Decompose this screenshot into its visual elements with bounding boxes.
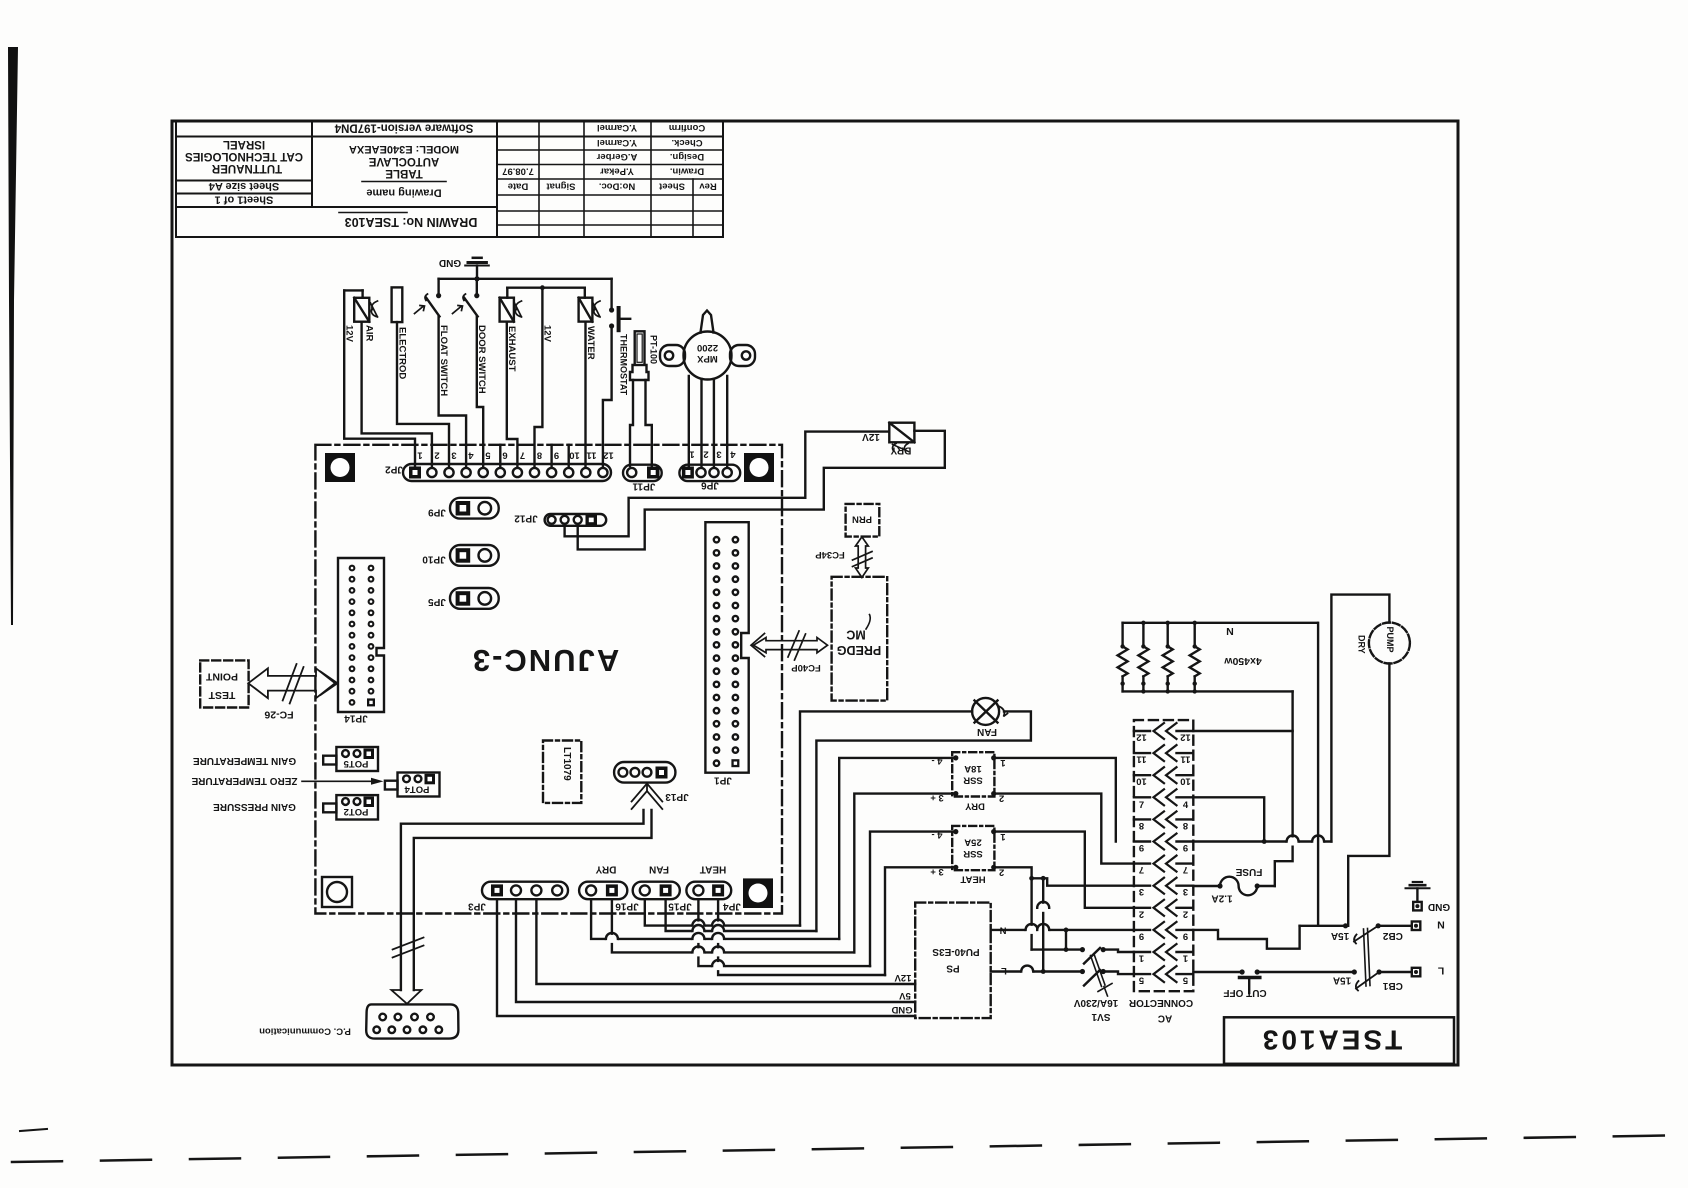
wire SSR18 pin3 left: [854, 794, 956, 953]
switch SV1: [1032, 948, 1083, 950]
svg-text:THERMOSTAT: THERMOSTAT: [619, 334, 629, 396]
svg-text:11: 11: [586, 450, 597, 461]
svg-text:7: 7: [520, 450, 525, 461]
wire JP16.2 to SSR18: [612, 899, 854, 952]
svg-text:ELECTROD: ELECTROD: [397, 327, 408, 379]
wire bus to float switch: [437, 279, 439, 296]
svg-text:GAIN PRESSURE: GAIN PRESSURE: [213, 801, 296, 812]
potentiometer POT5: [323, 747, 378, 771]
svg-text:WATER: WATER: [585, 326, 596, 360]
wire bus right end to thermostat: [610, 279, 612, 310]
motor DRY PUMP: [1369, 623, 1410, 664]
label 12V: [542, 325, 553, 343]
svg-text:Y.Pekar: Y.Pekar: [600, 166, 634, 177]
connector JP3 (4 pin): [482, 882, 568, 900]
stub pin10: [568, 445, 570, 466]
svg-text:Confirm: Confirm: [669, 122, 705, 133]
wire JP4.2 to SSR25: [718, 899, 885, 975]
PCB board dashed outline: [315, 445, 782, 914]
wire branch to SV1: [1030, 878, 1032, 949]
svg-text:Design.: Design.: [670, 151, 704, 162]
svg-text:No:Doc.: No:Doc.: [599, 181, 635, 192]
svg-text:FLOAT SWITCH: FLOAT SWITCH: [438, 325, 449, 396]
svg-text:FAN: FAN: [649, 864, 669, 875]
svg-text:7: 7: [1183, 864, 1188, 875]
fuse FUSE 1.2A: [1193, 877, 1275, 896]
svg-text:3: 3: [1183, 886, 1188, 897]
AC connector pin row 1: [1134, 944, 1193, 964]
label 12V: [344, 325, 355, 343]
wire SSR18 pin4 left: [839, 758, 956, 939]
transducer MPX 2200: [660, 311, 755, 380]
svg-text:JP4: JP4: [723, 901, 741, 912]
cable arrow FC-26: [248, 664, 337, 704]
resistor R2: [1138, 621, 1148, 694]
svg-text:GND: GND: [891, 1004, 912, 1015]
loop bus for EXHAUST / 12V / WATER: [507, 285, 585, 297]
label 2200 / MPX: [697, 342, 719, 364]
terminal L: [1412, 968, 1421, 977]
svg-text:JP9: JP9: [428, 507, 446, 518]
IC LT1079: [543, 741, 581, 803]
svg-text:15A: 15A: [1333, 975, 1351, 986]
resistor R4: [1190, 621, 1200, 694]
label DOOR SWITCH: [476, 325, 487, 394]
svg-text:POT5: POT5: [343, 758, 369, 769]
wire AC row 4-7 down join: [1193, 797, 1264, 841]
scan artifact: small dash lower left: [20, 1129, 47, 1131]
svg-text:5: 5: [1138, 975, 1144, 986]
wire JP3.2 to PS 5V: [516, 899, 915, 1002]
resistor R3: [1163, 621, 1173, 694]
label FLOAT SWITCH: [438, 325, 449, 396]
cable slashes: [393, 938, 424, 958]
breaker CB2 15A: [1343, 923, 1412, 943]
mounting hole bottom-right: [743, 878, 773, 908]
wire JP3.3 to PS 12V: [536, 899, 915, 984]
svg-text:9: 9: [1139, 842, 1144, 853]
AC connector pin row 9: [1134, 922, 1193, 942]
mounting hole top-right: [744, 453, 774, 482]
svg-text:FC34P: FC34P: [815, 549, 845, 560]
svg-text:15A: 15A: [1331, 930, 1349, 941]
svg-text:9: 9: [1139, 930, 1144, 941]
breaker CB1 15A: [1352, 969, 1412, 990]
svg-text:FC40P: FC40P: [791, 662, 821, 673]
resistor bank rails: [1123, 622, 1318, 624]
PS PU40-E3S box: [915, 903, 991, 1019]
svg-text:MC: MC: [846, 628, 865, 642]
wire fan left: [800, 711, 972, 925]
SSR 18A (DRY): [952, 752, 994, 796]
microcontroller box PREDG MC: [832, 577, 888, 701]
svg-text:TEST: TEST: [208, 689, 235, 701]
svg-text:12V: 12V: [344, 325, 355, 343]
connector JP9: [450, 498, 499, 519]
AC connector pin row 7: [1134, 856, 1193, 876]
svg-text:1.2A: 1.2A: [1211, 893, 1232, 904]
svg-text:Signat: Signat: [546, 181, 576, 192]
AC connector pin row 2: [1134, 900, 1193, 920]
svg-text:AIR: AIR: [364, 325, 375, 342]
connector JP10: [450, 545, 499, 566]
svg-text:JP15: JP15: [668, 901, 692, 912]
label AC CONNECTOR: [1128, 997, 1193, 1023]
svg-text:JP11: JP11: [632, 481, 655, 492]
svg-text:4: 4: [468, 450, 474, 461]
svg-text:3: 3: [1139, 886, 1144, 897]
wire EXHAUST (s6): [507, 322, 518, 466]
svg-text:9: 9: [554, 450, 559, 461]
svg-text:12V: 12V: [894, 972, 912, 983]
cable pair from JP13 to DB9: [401, 810, 644, 990]
pump top lead: [1331, 595, 1389, 842]
svg-text:DRY: DRY: [964, 801, 984, 812]
svg-text:1: 1: [1182, 953, 1188, 964]
svg-text:GND: GND: [439, 257, 461, 268]
wire JP3.1 to PS GND: [497, 899, 915, 1016]
svg-text:3: 3: [451, 450, 456, 461]
wire row3 branch down to L line: [1042, 878, 1044, 971]
svg-text:TABLE: TABLE: [385, 167, 423, 179]
AC connector pin row 10: [1134, 767, 1193, 787]
svg-text:MPX: MPX: [697, 353, 718, 364]
wire 12V (s1): [344, 290, 415, 466]
svg-text:12: 12: [603, 450, 614, 461]
lamp FAN: [972, 698, 999, 725]
svg-text:4x450w: 4x450w: [1223, 655, 1261, 667]
solenoid EXHAUST: [500, 298, 522, 322]
svg-text:PS: PS: [946, 963, 960, 974]
svg-text:P.C. Communication: P.C. Communication: [259, 1026, 351, 1037]
svg-text:PREDG: PREDG: [837, 643, 881, 657]
AC connector pin row 8: [1134, 811, 1193, 831]
svg-text:ZERO TEMPERATURE: ZERO TEMPERATURE: [191, 775, 297, 786]
connector JP6 (4 pin): [679, 465, 740, 481]
wires MPX to JP6: [688, 376, 690, 466]
DB9 connector: [366, 1004, 458, 1038]
svg-text:ISRAEL: ISRAEL: [223, 138, 265, 150]
wire WATER (s8): [584, 322, 586, 466]
JP6 pin numbers: [689, 449, 736, 460]
title block outer: [176, 121, 723, 237]
svg-text:CB2: CB2: [1382, 930, 1402, 941]
solenoid AIR with 12V loop: [344, 290, 377, 321]
PS pin labels: [891, 925, 1007, 1016]
wire AC row12 to resistor return: [1193, 730, 1292, 732]
svg-text:9: 9: [1183, 930, 1188, 941]
svg-text:SSR: SSR: [963, 775, 983, 786]
svg-text:PT-100: PT-100: [649, 335, 659, 364]
svg-text:PRN: PRN: [852, 514, 872, 525]
title block texts (page printed upside down): [185, 122, 717, 230]
connector rows: [1134, 723, 1193, 986]
wire SSR18 pin1 to AC row: [994, 758, 1116, 842]
svg-text:6: 6: [502, 450, 507, 461]
svg-text:8: 8: [537, 450, 542, 461]
svg-text:8: 8: [1183, 820, 1188, 831]
svg-text:CB1: CB1: [1382, 980, 1402, 991]
SSR 25A (HEAT): [952, 826, 994, 870]
svg-text:TSEA103: TSEA103: [1260, 1025, 1402, 1056]
svg-text:Y.Carmel: Y.Carmel: [597, 137, 637, 148]
svg-text:L: L: [1437, 965, 1444, 977]
svg-text:7: 7: [1139, 864, 1144, 875]
ground bus wire: [439, 278, 612, 280]
wire JP15.2 to fan return: [666, 899, 817, 931]
connector JP16 (DRY): [579, 882, 627, 900]
wire DOOR (s5): [477, 317, 483, 467]
pump bottom lead: [1348, 664, 1389, 926]
potentiometer POT2: [323, 795, 378, 819]
svg-text:TUTTNAUER: TUTTNAUER: [211, 162, 282, 174]
mounting hole bottom-left: [322, 877, 352, 907]
mounting hole top-left: [325, 453, 355, 482]
AC connector pin row 11: [1134, 745, 1193, 765]
svg-text:JP14: JP14: [344, 713, 368, 724]
thermostat contact: [609, 307, 630, 330]
terminal N: [1412, 922, 1421, 931]
switch FLOAT SWITCH: [415, 293, 442, 317]
svg-text:Y.Carmel: Y.Carmel: [597, 122, 637, 133]
arrow head to DB9: [391, 990, 421, 1004]
svg-text:3: 3: [716, 449, 721, 460]
wire ELECTROD (s3): [397, 322, 449, 466]
cable arrow FC34P: [853, 537, 873, 578]
wire resistor bottom rail down to fuse: [1275, 691, 1293, 886]
solenoid WATER: [579, 298, 600, 322]
svg-text:EXHAUST: EXHAUST: [506, 326, 517, 372]
header JP14 (2x13): [338, 558, 384, 712]
svg-text:CONNECTOR: CONNECTOR: [1128, 997, 1193, 1008]
wire JP16.1 to SSR18: [591, 899, 839, 939]
svg-text:5: 5: [485, 450, 491, 461]
wire 12V second (s7): [535, 288, 543, 466]
connector JP13 (4 pin): [614, 762, 675, 783]
svg-text:DRY: DRY: [1357, 635, 1367, 654]
svg-text:LT1079: LT1079: [561, 747, 572, 781]
connector JP12 (4 pin): [545, 514, 607, 526]
scan artifact: bottom dashed slanted line: [12, 1135, 1688, 1162]
svg-text:JP6: JP6: [701, 480, 719, 491]
wire SV1 to AC row5: [1103, 972, 1134, 975]
ground GND right: [1406, 882, 1430, 910]
probe PT-100: [630, 331, 649, 380]
label WATER: [585, 326, 596, 360]
svg-text:7: 7: [1139, 800, 1144, 811]
switch DOOR SWITCH: [453, 293, 480, 317]
svg-text:JP13: JP13: [665, 791, 689, 802]
svg-text:A.Gerber: A.Gerber: [596, 151, 637, 162]
svg-text:2: 2: [1139, 908, 1144, 919]
wire relay to JP12 pin3: [578, 431, 945, 550]
AC connector dashed box: [1134, 720, 1193, 991]
svg-text:18A: 18A: [964, 763, 982, 774]
scan artifact: left black wedge: [8, 47, 18, 625]
label PT-100: [649, 335, 659, 364]
connector JP5: [450, 588, 499, 609]
svg-text:AJUNC-3: AJUNC-3: [471, 643, 619, 678]
svg-text:POT2: POT2: [344, 806, 369, 817]
label EXHAUST: [506, 326, 517, 372]
AC connector pin row 4: [1134, 789, 1193, 811]
svg-text:12V: 12V: [542, 325, 553, 343]
svg-text:10: 10: [569, 450, 580, 461]
svg-text:2: 2: [434, 450, 439, 461]
svg-text:12: 12: [1180, 732, 1191, 743]
svg-text:AUTOCLAVE: AUTOCLAVE: [368, 155, 439, 167]
svg-text:4: 4: [1183, 800, 1189, 811]
svg-text:4: 4: [730, 449, 736, 460]
connector JP15 (FAN): [633, 882, 680, 900]
svg-text:N: N: [1226, 625, 1234, 637]
electrode ELECTROD: [392, 287, 403, 322]
label SV1 16A/230V: [1073, 997, 1118, 1022]
wire SV1 to AC row1: [1103, 950, 1134, 952]
svg-text:SV1: SV1: [1091, 1011, 1110, 1022]
wire PT100 left to JP11: [630, 380, 633, 466]
svg-text:Check.: Check.: [671, 137, 702, 148]
svg-text:4 -: 4 -: [931, 755, 942, 766]
cable arrow FC40P: [751, 631, 828, 660]
svg-text:10: 10: [1136, 776, 1147, 787]
wire AC row9 to pump feed: [1193, 840, 1331, 842]
wire JP15.1 to fan: [645, 899, 800, 925]
svg-text:Drawing name: Drawing name: [366, 187, 441, 199]
svg-text:2: 2: [703, 449, 708, 460]
svg-text:POINT: POINT: [205, 671, 238, 683]
svg-text:7.08.97: 7.08.97: [502, 166, 534, 177]
svg-text:FUSE: FUSE: [1235, 866, 1262, 877]
wire PT100 right to JP11: [646, 380, 652, 466]
svg-text:Sheet1 of 1: Sheet1 of 1: [215, 194, 274, 206]
arrow chevron at JP13: [632, 783, 663, 809]
wire bus to door switch: [476, 279, 478, 296]
AC connector pin row 3: [1134, 878, 1193, 898]
svg-text:1: 1: [417, 450, 423, 461]
svg-text:2200: 2200: [697, 342, 718, 353]
wire JP4.1 to SSR25: [698, 899, 870, 966]
svg-text:11: 11: [1180, 754, 1191, 765]
svg-text:JP5: JP5: [428, 596, 446, 607]
svg-text:POT4: POT4: [404, 784, 430, 795]
svg-text:JP10: JP10: [422, 554, 446, 565]
connector JP2 (12 pin): [403, 464, 611, 481]
svg-text:Sheet size A4: Sheet size A4: [208, 180, 279, 192]
svg-text:11: 11: [1136, 754, 1147, 765]
svg-text:Sheet: Sheet: [658, 181, 685, 192]
revision table grid: [497, 121, 723, 237]
breaker mechanical tie: [1364, 929, 1371, 987]
wire JP12 pin2 to relay: [565, 432, 890, 537]
svg-text:PUMP: PUMP: [1385, 627, 1395, 653]
L line from PS to SV1: [991, 970, 1083, 972]
svg-text:JP3: JP3: [468, 901, 486, 912]
JP2 pin numbers 1-12: [417, 450, 614, 461]
svg-text:DRY: DRY: [595, 864, 616, 875]
wire THERMOSTAT (s9): [603, 326, 612, 466]
svg-text:JP1: JP1: [714, 775, 732, 786]
label ELECTROD: [397, 327, 408, 379]
svg-text:GND: GND: [1428, 901, 1450, 912]
svg-text:JP16: JP16: [615, 901, 639, 912]
header JP1 (2x18): [705, 522, 748, 773]
svg-text:2: 2: [1183, 908, 1188, 919]
connector JP11 (2 pin): [623, 465, 662, 481]
wire SSR18 pin2 to AC row: [994, 794, 1134, 864]
label THERMOSTAT: [619, 334, 629, 396]
wire AIR (s2): [362, 322, 432, 466]
svg-text:GAIN TEMPERATURE: GAIN TEMPERATURE: [193, 755, 296, 766]
drawing frame: [172, 121, 1458, 1065]
svg-text:HEAT: HEAT: [960, 874, 985, 885]
resistor R1: [1118, 623, 1128, 692]
svg-text:SSR: SSR: [963, 848, 983, 859]
svg-text:DRY: DRY: [890, 445, 911, 456]
svg-text:MODEL: E340EAEXA: MODEL: E340EAEXA: [349, 143, 459, 155]
svg-text:1: 1: [1138, 953, 1144, 964]
svg-text:N: N: [1437, 919, 1445, 931]
potentiometer POT4: [385, 773, 440, 797]
wire SSR25 pin3 left: [885, 867, 956, 975]
stub pin6: [499, 445, 501, 466]
wire hops: [606, 920, 725, 971]
ground GND (page upside down): [465, 258, 489, 282]
svg-text:HEAT: HEAT: [700, 864, 726, 875]
svg-text:16A/230V: 16A/230V: [1073, 997, 1118, 1008]
AC connector pin row 9: [1134, 834, 1193, 854]
svg-text:8: 8: [1139, 820, 1144, 831]
svg-text:5: 5: [1182, 975, 1188, 986]
AC connector pin row 5: [1134, 966, 1193, 986]
svg-text:AC: AC: [1158, 1013, 1172, 1024]
svg-text:FC-26: FC-26: [264, 709, 293, 721]
svg-text:Date: Date: [508, 181, 529, 192]
svg-text:FAN: FAN: [977, 726, 997, 737]
svg-text:DRAWIN No: TSEA103: DRAWIN No: TSEA103: [345, 215, 478, 229]
relay coil DRY 12V: [889, 423, 914, 452]
connector JP4 (HEAT): [686, 882, 731, 900]
svg-text:9: 9: [1183, 842, 1188, 853]
svg-text:CUT OFF: CUT OFF: [1223, 987, 1266, 998]
svg-text:25A: 25A: [964, 837, 982, 848]
svg-text:JP2: JP2: [385, 464, 403, 475]
TEST POINT dashed box: [200, 660, 248, 707]
N line from PS to AC connector: [991, 929, 1134, 931]
svg-text:12: 12: [1136, 732, 1147, 743]
svg-text:Software version-197DN4: Software version-197DN4: [334, 122, 473, 134]
cut-off switch CUT OFF: [1193, 969, 1354, 993]
svg-text:PU40-E3S: PU40-E3S: [932, 946, 980, 957]
arrow to POT4: [302, 778, 384, 785]
wire fan right return: [816, 711, 1031, 931]
TSEA103 box bottom right: [1224, 1017, 1454, 1064]
svg-text:Rev: Rev: [699, 181, 717, 192]
N branch to SV1: [1065, 930, 1067, 950]
label AIR: [364, 325, 375, 342]
svg-text:5V: 5V: [899, 990, 911, 1001]
stub pin9: [550, 445, 552, 466]
wire SSR25 pin4 left: [870, 832, 956, 967]
printer box PRN: [846, 504, 880, 537]
svg-text:10: 10: [1180, 776, 1191, 787]
svg-text:Drawin.: Drawin.: [670, 166, 704, 177]
AC connector pin row 12: [1134, 723, 1193, 743]
svg-text:DOOR SWITCH: DOOR SWITCH: [476, 325, 487, 394]
wire FLOAT (s4): [439, 317, 467, 467]
wire SSR25 pin2 to AC row3: [994, 867, 1032, 878]
wire SSR25 pin1 to AC row2: [994, 832, 1134, 908]
